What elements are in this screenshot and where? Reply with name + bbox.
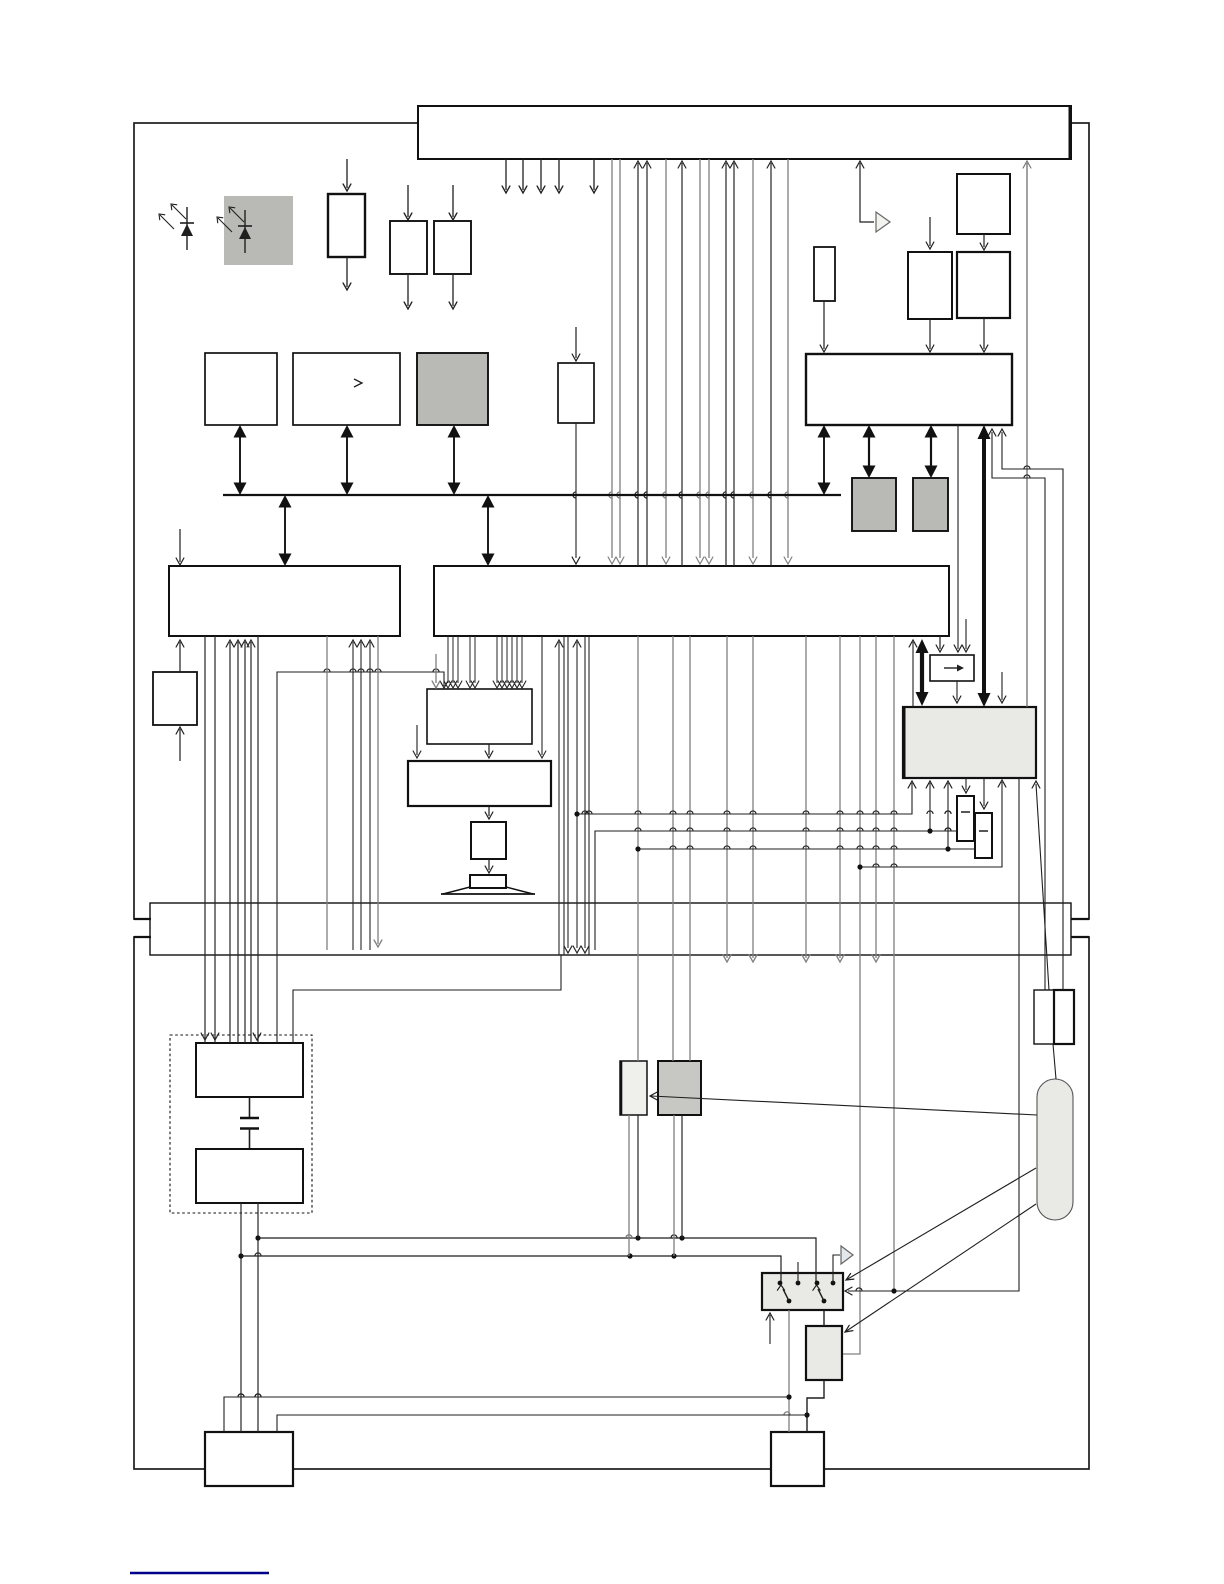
frame jog left lower [134, 936, 151, 938]
thick link radio controller to RAM buffer 2 [930, 436, 932, 468]
wire level converter to jack board [956, 681, 958, 700]
wire radio controller to mains cell (left) [992, 432, 1045, 990]
block: reset IC [558, 363, 594, 423]
thick link radio controller to RAM buffer 1 [868, 436, 870, 468]
stub arrows out of top box bottom [505, 159, 507, 190]
branch jack wire 3 up to jack board [947, 783, 949, 849]
block: attenuator 2 (minus) [975, 813, 992, 858]
junction pole1 line / sense wire C [786, 1394, 791, 1399]
block: output coupling [471, 822, 506, 859]
junction jack wire 3 right [945, 846, 950, 851]
block: audio power amplifier [408, 761, 551, 806]
LED D2 backlight panel (grey) [224, 196, 293, 265]
block: headphone jack board (grey) [903, 707, 1036, 778]
wire pre-amp to power-amp [488, 744, 490, 755]
wire into key matrix A [407, 185, 409, 217]
stub arrow into crystal bottom [179, 729, 181, 761]
wire DSP to power-amp direct [541, 636, 543, 755]
DSP harness line with junction to jack wire 1 [576, 642, 578, 948]
switch arm 1 [783, 1289, 789, 1301]
jack wire 1 (to jack board pin 1) [577, 783, 912, 814]
block: DC jack cell (white) [620, 1061, 647, 1115]
supply wire B (lower power rail) [241, 1256, 781, 1283]
wire out of display driver [346, 257, 348, 287]
jack wire 3 (to attenuator 2) [638, 848, 975, 850]
junction rail A / AC adaptor line [679, 1235, 684, 1240]
stub arrow into switch bottom [769, 1315, 771, 1344]
sense wire D (to DC-DC converter) [277, 1415, 807, 1432]
wire out of key matrix B [452, 274, 454, 306]
CPU-A harness line right [257, 636, 259, 1043]
battery output line B (x=258) [257, 1203, 259, 1432]
block: key matrix A [390, 221, 427, 274]
block: battery terminal plate lower [196, 1149, 303, 1203]
slanted wire jack board to mains cells [1036, 784, 1049, 990]
junction rail A / DC jack line [635, 1235, 640, 1240]
bus tap RAM [239, 436, 241, 485]
block: battery terminal plate upper [196, 1043, 303, 1097]
pill line to regulator [845, 1204, 1036, 1332]
pill cord to jack cells (arrow line) [651, 1096, 1037, 1115]
wire audio-mute: pre-amp feed with corner [277, 672, 444, 1043]
CPU-A harness lines with up arrows [229, 642, 231, 1043]
wire into key matrix B [452, 185, 454, 217]
bus lines top-box to DSP (grey, downward) [611, 159, 613, 558]
DSP to pre-amp arrows [447, 636, 449, 683]
stub wire into pre-amp (grey) [435, 654, 437, 683]
wire oscillator to radio controller [823, 301, 825, 349]
DSP grey harness stubs ending below band [726, 636, 728, 958]
wire coupling to speaker [488, 859, 490, 870]
switch contact dots top row [778, 1281, 783, 1286]
junction battery line B / supply wire A [255, 1235, 260, 1240]
bottom section frame [134, 937, 1089, 1469]
block: oscillator [814, 247, 835, 301]
wire reset IC to DSP [575, 423, 577, 558]
stub arrow into CPU-A top [179, 529, 181, 562]
block: level converter (arrow box) [930, 655, 974, 681]
wire attenuator 2 input [983, 778, 985, 806]
junction jack wire 1 [574, 811, 579, 816]
block: AC adaptor cell (grey) [658, 1061, 701, 1115]
block: key matrix B [434, 221, 471, 274]
block: audio pre-amp [427, 689, 532, 744]
bus tap comparator [346, 436, 348, 485]
block: tuner stage [957, 174, 1010, 234]
branch jack wire 2 up to jack board [929, 783, 931, 831]
block: mains plug cell pair [1034, 990, 1054, 1044]
wire crystal to CPU-A [179, 642, 181, 672]
frame jog left upper [134, 918, 151, 920]
top box right edge emphasis [1069, 106, 1072, 159]
block: EEPROM (grey) [417, 353, 488, 425]
pointer triangle bottom (off-page connector) [841, 1246, 853, 1264]
DSP harness black cluster to band [558, 642, 560, 955]
stub arrow into power-amp left [416, 725, 418, 755]
AC adaptor cell output black [681, 1115, 683, 1238]
wire tuner to detector [983, 234, 985, 247]
CPU-A to connector band lines (second group) [326, 636, 328, 950]
block: RAM buffer (grey) 1 [852, 478, 896, 531]
pointer triangle (off-page connector) [876, 212, 890, 232]
block: detector stage [957, 252, 1010, 318]
wire band to battery unit (L shaped) [293, 955, 561, 1043]
block: IF stage [908, 252, 952, 319]
block: power switch S1 (grey) [762, 1273, 843, 1310]
DSP grey harness long line to regulator [843, 636, 860, 1354]
wire jack board to power switch (long, via right) [848, 778, 1019, 1291]
DSP grey harness to AC adaptor cell (right) [689, 636, 691, 1061]
DSP grey harness long line to switch junction [893, 636, 895, 1291]
DC jack cell output black [637, 1115, 639, 1238]
stub wire into switch contact 2 [797, 1262, 799, 1283]
DC jack cell output grey [628, 1115, 630, 1256]
stub wire into level converter [965, 619, 967, 649]
bus tap EEPROM [453, 436, 455, 485]
junction jack wire 3 left [635, 846, 640, 851]
wire IF to radio controller [929, 319, 931, 349]
bus tap DSP-B [487, 506, 489, 556]
battery output line A (x=241) [240, 1203, 242, 1432]
wire jack board to DSP (thin up arrow) [912, 642, 914, 707]
frame jog right upper [1071, 918, 1089, 920]
block: attenuator 1 (minus) [957, 796, 974, 841]
junction regulator line / sense wire D [804, 1412, 809, 1417]
wire radio controller to level converter [957, 425, 959, 649]
top bus box U-top (main IC) [418, 106, 1071, 159]
switch pole dots [787, 1299, 792, 1304]
wire switch to off-page pointer [833, 1255, 840, 1283]
bus tap radio controller [823, 436, 825, 485]
pill line to power switch [846, 1168, 1036, 1280]
wire attenuator 1 input [965, 778, 967, 790]
frame jog right lower [1071, 936, 1089, 938]
wire radio controller to mains cell (right) [1002, 432, 1063, 990]
block: display driver [328, 194, 365, 257]
wire into reset IC [575, 327, 577, 358]
DSP grey harness to AC adaptor cell (left) [672, 636, 674, 1061]
battery cell symbol BT1 [249, 1097, 251, 1118]
LED D1 [186, 207, 188, 250]
block: power supply rectifier (bottom-right) [771, 1432, 824, 1486]
wire DSP to level converter [939, 636, 941, 649]
block: memory/RAM [205, 353, 277, 425]
main data bus [223, 494, 841, 496]
footer rule (navy) [130, 1572, 269, 1575]
block: radio/front-end controller [806, 354, 1012, 425]
connector band (board-to-board strip) [150, 903, 1071, 955]
sense wire C (to DC-DC converter) [224, 1397, 789, 1432]
block: RAM buffer (grey) 2 [913, 478, 948, 531]
LED D2 [244, 210, 246, 253]
thick link DSP to jack board [920, 650, 924, 694]
stub wire into jack board [1001, 672, 1003, 700]
thick arrow radio controller to jack board [982, 436, 986, 694]
wire detector to radio controller [983, 318, 985, 349]
block: CPU bus interface A (main microprocessor) [169, 566, 400, 636]
block: crystal [153, 672, 197, 725]
jack wire 4 (headphone detect) [860, 782, 1002, 867]
battery compartment (dashed outline) [170, 1035, 312, 1213]
bus tap CPU-A [284, 506, 286, 556]
wire: top box to right-pointer symbol [860, 163, 874, 222]
block: DC-DC converter (bottom-left) [205, 1432, 293, 1486]
wire power-amp to coupling [488, 806, 490, 816]
junction rail B / DC jack grey line [627, 1253, 632, 1258]
top section frame [134, 123, 1089, 919]
junction jack wire 2 [927, 828, 932, 833]
junction jack wire 4 [857, 864, 862, 869]
arrowheads into battery unit [201, 1033, 209, 1040]
wire switch pole 2 to regulator [823, 1310, 825, 1326]
supply wire A (upper power rail) [258, 1238, 816, 1283]
jack wire 2 (to attenuator 1) [595, 831, 957, 950]
junction rail B / AC adaptor grey line [671, 1253, 676, 1258]
AC adaptor cell output grey [673, 1115, 675, 1256]
mains cells to pill link [1053, 1044, 1056, 1079]
wire regulator to rectifier [807, 1380, 824, 1432]
switch arm 2 [818, 1289, 824, 1301]
junction battery line A / supply wire B [238, 1253, 243, 1258]
wire out of key matrix A [407, 274, 409, 306]
block: servo / DSP processor B [434, 566, 949, 636]
junction switch wire / grey harness [891, 1288, 896, 1293]
CPU-A harness lines (left group to battery unit) [204, 636, 206, 1043]
wire switch pole 1 to rectifier (grey) [788, 1310, 790, 1432]
wire into display driver [346, 159, 348, 188]
wire: top box to headphone jack board (long grey) [1026, 163, 1028, 707]
block: regulator (grey) [806, 1326, 842, 1380]
stub wire into IF stage [929, 217, 931, 246]
AC power cord (pill) [1037, 1079, 1073, 1220]
DSP grey harness to DC jack cell [637, 636, 639, 1061]
bus lines DSP to top-box (black, upward) [637, 163, 639, 566]
block: comparator (>) [293, 353, 400, 425]
speaker SP1 [470, 875, 506, 888]
